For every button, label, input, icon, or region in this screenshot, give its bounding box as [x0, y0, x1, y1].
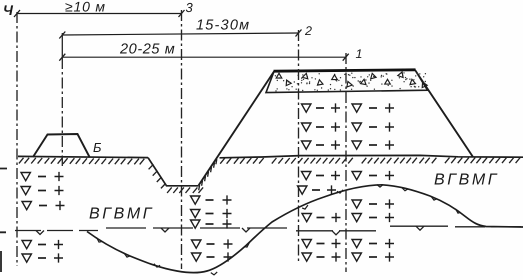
svg-text:Б: Б — [93, 140, 102, 155]
soil symbols ditch row 1 — [191, 195, 232, 204]
ground surface line under and right of embankment — [220, 155, 523, 157]
soil symbols left row 2 — [21, 186, 64, 195]
ballast stipple dots — [275, 73, 425, 91]
soil symbols ditch row 2 — [191, 209, 232, 218]
embankment right slope — [415, 70, 473, 157]
permafrost table dashed level line — [15, 230, 98, 232]
soil symbols ditch row 4 — [192, 239, 233, 248]
ballast cap (dotted fill with triangles) — [266, 70, 428, 93]
svg-text:2: 2 — [304, 24, 312, 38]
soil symbols col-A row 6 — [302, 213, 341, 222]
svg-text:Ч: Ч — [3, 2, 14, 18]
svg-text:ВГВМГ: ВГВМГ — [434, 172, 499, 189]
soil symbols col-B row 8 — [352, 252, 394, 261]
soil symbols col-A row 8 — [302, 252, 341, 261]
soil symbols ditch row 3 — [191, 219, 232, 228]
embankment left slope — [199, 72, 275, 186]
permafrost boundary curve (bowl under ditch, dome under embankment) — [87, 185, 523, 273]
soil symbols col-A row 2 — [302, 122, 341, 131]
soil symbols col-A row 3 — [302, 140, 341, 149]
soil symbols col-A row 7 — [302, 239, 341, 248]
ground hatching left — [19, 158, 144, 165]
axis line 2 — [298, 30, 300, 261]
axis line 4 (vertical dash-dot at left) — [16, 12, 18, 266]
soil symbols left-bottom row 2 — [22, 253, 63, 262]
svg-text:3: 3 — [186, 0, 194, 15]
auxiliary vertical line through berm — [61, 33, 63, 58]
ditch bottom hatching — [167, 187, 203, 193]
svg-text:20-25 м: 20-25 м — [119, 42, 175, 58]
svg-text:ВГВМГ: ВГВМГ — [89, 206, 154, 223]
soil symbols col-B row 3 — [352, 140, 394, 149]
ditch right slope hatching — [199, 159, 217, 190]
scan artifact marks at left edge — [0, 169, 7, 273]
svg-text:15-30м: 15-30м — [196, 18, 250, 34]
soil symbols col-B row 7 — [352, 239, 394, 248]
soil symbols ditch row 5 — [192, 252, 233, 261]
axis line 1 — [345, 53, 347, 272]
soil symbols col-A row 4 — [302, 171, 341, 180]
soil symbols col-A row 5 — [298, 185, 337, 194]
soil symbols left row 3 — [22, 201, 65, 210]
ballast triangles — [276, 72, 427, 88]
soil symbols left-bottom row 1 — [22, 240, 63, 249]
soil symbols left row 1 — [21, 172, 64, 181]
svg-text:≥10 м: ≥10 м — [65, 0, 106, 15]
soil symbols col-B row 2 — [352, 122, 394, 131]
soil symbols col-B row 5 — [352, 199, 394, 208]
break marks (v) on level line — [36, 226, 424, 235]
ditch (reserve) profile — [148, 158, 199, 186]
soil symbols col-B row 4 — [352, 171, 394, 180]
soil symbols col-B row 1 — [352, 103, 394, 112]
soil symbols col-A row 1 — [302, 103, 341, 112]
dimension line >=10 m — [17, 13, 182, 15]
berm (small mound) left — [33, 134, 90, 157]
soil symbols col-B row 6 — [352, 213, 394, 222]
scallop ticks on curve — [97, 185, 461, 275]
ground hatching right — [220, 158, 520, 164]
svg-text:1: 1 — [356, 47, 363, 61]
dimension line 20-25 m — [62, 56, 345, 58]
dimension line 15-30 m — [62, 33, 298, 35]
axis line 3 — [181, 10, 183, 269]
ditch left slope hatching — [149, 164, 166, 188]
ground surface line, left of ditch — [18, 156, 148, 157]
